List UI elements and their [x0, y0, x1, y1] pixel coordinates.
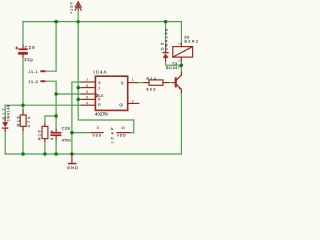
svg-text:5: 5 [86, 96, 88, 100]
svg-text:J1-2: J1-2 [28, 80, 37, 84]
svg-text:3: 3 [86, 90, 88, 94]
svg-text:BC337: BC337 [166, 66, 180, 70]
svg-text:8k2: 8k2 [146, 87, 155, 91]
svg-text:C28: C28 [62, 126, 70, 130]
svg-text:22µ: 22µ [24, 57, 33, 62]
svg-text:Q: Q [121, 81, 124, 85]
svg-text:B2R2: B2R2 [185, 40, 199, 44]
svg-text:C29: C29 [25, 45, 36, 50]
svg-text:8: 8 [97, 126, 99, 130]
svg-text:2: 2 [132, 100, 134, 104]
svg-text:GND: GND [67, 166, 78, 170]
svg-text:IC4A: IC4A [94, 70, 107, 75]
svg-text:16: 16 [121, 126, 125, 130]
svg-text:47k: 47k [50, 130, 54, 140]
svg-text:6: 6 [86, 84, 88, 88]
svg-text:R15: R15 [17, 116, 21, 126]
svg-text:1N4148: 1N4148 [6, 105, 10, 122]
svg-text:J1-1: J1-1 [28, 70, 37, 74]
svg-text:+12V: +12V [69, 2, 73, 14]
svg-text:47k: 47k [27, 117, 31, 128]
svg-text:R14: R14 [146, 77, 156, 81]
svg-text:1: 1 [132, 78, 134, 82]
svg-text:4027N: 4027N [95, 111, 108, 116]
svg-text:VDD: VDD [117, 133, 126, 137]
svg-text:R13: R13 [38, 131, 42, 141]
svg-text:4: 4 [86, 101, 88, 105]
svg-text:470n: 470n [62, 138, 71, 142]
svg-text:J: J [98, 86, 100, 90]
svg-text:7: 7 [86, 78, 88, 82]
svg-text:Q\: Q\ [119, 103, 123, 107]
svg-text:R: R [98, 103, 101, 107]
svg-text:VSS: VSS [93, 133, 102, 137]
